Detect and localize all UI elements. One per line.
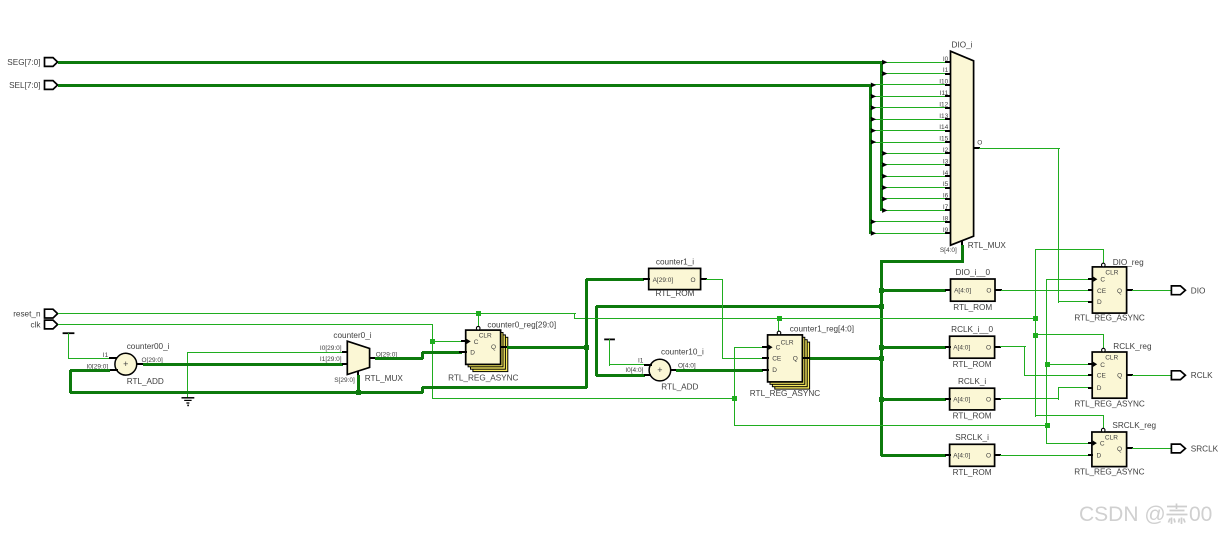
svg-text:counter00_i: counter00_i — [127, 342, 170, 351]
wire SEG[7:0] horizontal from port to bus — [58, 61, 882, 64]
junction clk at x=734.4 — [732, 396, 737, 401]
register RCLK_reg (RTL_REG_ASYNC) — [1092, 348, 1127, 398]
svg-text:Q: Q — [1117, 446, 1122, 453]
mux DIO_i (RTL_MUX) body — [951, 41, 1007, 251]
svg-text:RTL_REG_ASYNC: RTL_REG_ASYNC — [750, 389, 820, 398]
svg-text:RTL_ADD: RTL_ADD — [127, 377, 164, 386]
pin I2 of DIO_i — [943, 147, 951, 154]
svg-text:SRCLK: SRCLK — [1191, 445, 1219, 454]
svg-text:S[29:0]: S[29:0] — [334, 377, 355, 384]
pin I5 of DIO_i — [943, 181, 951, 189]
wire clk to RCLK_reg C — [1047, 364, 1089, 365]
junction on Q bus from counter1_reg Q driver — [879, 356, 884, 361]
junction reset to counter1_reg CLR — [777, 316, 782, 321]
adder counter10_i (RTL_ADD) — [649, 348, 704, 392]
svg-text:O: O — [986, 453, 991, 460]
svg-text:counter1_reg[4:0]: counter1_reg[4:0] — [790, 325, 854, 334]
wire RCLK_i__0 O to RCLK_reg CE — [1000, 346, 1089, 376]
junction counter0_reg Q net — [584, 345, 589, 350]
register SRCLK_reg (RTL_REG_ASYNC) — [1092, 428, 1127, 466]
svg-text:SRCLK_i: SRCLK_i — [955, 433, 989, 442]
input port SEG[7:0] — [7, 58, 57, 68]
wire clk to DIO_reg C — [1047, 279, 1089, 280]
mux counter0_i (RTL_MUX) body — [333, 331, 403, 383]
pin I3 of DIO_i — [943, 158, 951, 166]
wire clk from port — [58, 324, 433, 325]
wire counter0_reg Q to feedback riser — [507, 346, 587, 349]
junction clk to RCLK_reg C — [1045, 362, 1050, 367]
svg-text:I1[29:0]: I1[29:0] — [320, 356, 342, 363]
svg-text:counter0_reg[29:0]: counter0_reg[29:0] — [487, 321, 556, 330]
svg-text:I10: I10 — [939, 79, 948, 86]
wire Q to counter1_i A — [586, 278, 644, 281]
wire reset right riser x=1035.2 — [1035, 250, 1036, 417]
pin C stub of RCLK_reg — [1088, 363, 1093, 365]
wire Q bus left branch to counter10_i I0 — [595, 305, 882, 377]
svg-text:I2: I2 — [943, 147, 949, 154]
svg-text:A[4:0]: A[4:0] — [953, 345, 970, 352]
wire counter00_i O to counter0_i I1 — [143, 363, 343, 366]
wire counter1_reg Q to bus — [809, 357, 882, 360]
svg-text:I8: I8 — [943, 215, 949, 222]
svg-text:C: C — [1100, 277, 1105, 284]
pin Q stub of counter1_reg — [802, 357, 810, 359]
pin I1 of DIO_i — [943, 67, 951, 75]
pin I1 of counter00_i — [103, 352, 117, 359]
wire clk to counter0_reg C — [432, 341, 462, 342]
register counter1_reg[4:0] (RTL_REG_ASYNC) — [768, 331, 810, 389]
svg-text:CLR: CLR — [781, 340, 794, 347]
svg-text:I1: I1 — [943, 67, 949, 74]
pin C stub of SRCLK_reg — [1088, 442, 1093, 444]
wire tap to mux pin I6 with arrowhead — [881, 197, 946, 202]
junction reset to counter0_reg CLR — [476, 311, 481, 316]
junction on Q bus to RCLK_i__0 A — [879, 345, 884, 350]
pin D stub of counter0_reg — [459, 351, 467, 353]
output port RCLK — [1171, 371, 1213, 380]
wire counter1_i O to counter1_reg CE — [706, 279, 763, 359]
svg-text:DIO_i: DIO_i — [952, 41, 973, 50]
svg-text:I5: I5 — [943, 181, 949, 188]
adder counter00_i (RTL_ADD) — [115, 342, 170, 386]
svg-text:I1: I1 — [103, 352, 109, 359]
watermark CSDN @霖00 — [1079, 503, 1212, 526]
svg-text:RTL_ROM: RTL_ROM — [953, 360, 992, 369]
wire Q bus bottom corner to SRCLK_i A — [881, 454, 946, 457]
wire SRCLK_i O to SRCLK_reg D — [1000, 455, 1089, 456]
pin Q stub of SRCLK_reg — [1127, 447, 1133, 449]
pin O[29:0] of counter0_i — [370, 351, 397, 359]
wire tap to mux pin I13 with arrowhead — [870, 117, 946, 122]
svg-text:A[29:0]: A[29:0] — [653, 277, 674, 284]
svg-text:CSDN @: CSDN @ — [1079, 503, 1166, 526]
pin O stub of RCLK_i__0 — [995, 346, 1001, 348]
svg-text:O: O — [977, 140, 982, 147]
pin O of DIO_i — [974, 140, 982, 149]
pin D stub of SRCLK_reg — [1088, 454, 1093, 456]
output port DIO — [1171, 286, 1205, 295]
svg-text:RTL_MUX: RTL_MUX — [968, 241, 1007, 250]
pin CE stub of counter1_reg — [762, 357, 769, 359]
pin S[29:0] of counter0_i — [334, 371, 359, 384]
svg-text:Q: Q — [1117, 288, 1122, 295]
wire reset to RCLK_reg CLR — [1035, 334, 1104, 349]
wire counter1_reg Q[4:0] vertical bus x=881.3 — [880, 260, 883, 456]
svg-text:O: O — [986, 345, 991, 352]
pin I14 of DIO_i — [939, 124, 951, 132]
input port clk — [30, 320, 57, 330]
wire ground to counter0_i I0 — [188, 352, 343, 353]
pin D stub of counter1_reg — [762, 369, 769, 371]
svg-text:O: O — [986, 288, 991, 295]
wire tap to mux pin I8 with arrowhead — [870, 219, 946, 224]
wire S[4:0] select net: bus corner up to mux S pin — [881, 245, 964, 263]
pin A stub of RCLK_i — [945, 398, 951, 400]
svg-text:C: C — [1100, 441, 1105, 448]
wire Q bus to DIO_i__0 A — [881, 289, 946, 292]
svg-text:O[29:0]: O[29:0] — [142, 357, 164, 364]
ground symbol — [182, 352, 195, 406]
wire SEL[7:0] horizontal from port to bus — [58, 84, 871, 87]
pin I1[29:0] of counter0_i — [320, 356, 348, 365]
svg-text:I13: I13 — [939, 113, 948, 120]
wire SRCLK_reg Q to SRCLK port — [1132, 448, 1172, 449]
svg-text:O[4:0]: O[4:0] — [678, 363, 696, 370]
svg-text:O: O — [986, 396, 991, 403]
svg-text:I4: I4 — [943, 170, 949, 177]
svg-text:RCLK_reg: RCLK_reg — [1113, 342, 1152, 351]
wire tap to mux pin I15 with arrowhead — [870, 140, 946, 145]
svg-text:I14: I14 — [939, 124, 948, 131]
svg-text:I7: I7 — [943, 204, 949, 211]
pin I6 of DIO_i — [943, 193, 951, 200]
svg-text:I0[29:0]: I0[29:0] — [320, 345, 342, 352]
wire reset step down x=574.8 — [574, 313, 575, 319]
pin C stub of counter1_reg — [762, 346, 769, 348]
svg-text:I9: I9 — [943, 227, 949, 234]
svg-text:CLR: CLR — [479, 333, 492, 340]
pin I0[29:0] of counter00_i — [87, 363, 118, 371]
svg-text:CLR: CLR — [1105, 354, 1118, 361]
svg-text:C: C — [474, 339, 479, 346]
rom SRCLK_i (RTL_ROM) — [950, 433, 995, 477]
svg-text:DIO_i__0: DIO_i__0 — [955, 268, 990, 277]
junction on Q bus to DIO_i__0 A — [879, 288, 884, 293]
svg-text:SRCLK_reg: SRCLK_reg — [1112, 421, 1156, 430]
wire Q riser x=585.6 — [585, 279, 588, 388]
wire reset drop to counter0_reg CLR — [478, 313, 479, 327]
pin I10 of DIO_i — [939, 79, 951, 86]
svg-text:reset_n: reset_n — [13, 310, 41, 319]
svg-text:CE: CE — [1097, 288, 1107, 295]
pin D stub of DIO_reg — [1088, 301, 1093, 303]
svg-text:00: 00 — [1189, 503, 1212, 526]
svg-text:RCLK_i: RCLK_i — [958, 377, 986, 386]
wire tap to mux pin I14 with arrowhead — [870, 128, 946, 133]
svg-text:D: D — [1097, 453, 1102, 460]
wire clk riser x=1046.9 — [1046, 279, 1047, 444]
wire SEG[7:0] vertical bus x=881 — [880, 61, 883, 211]
pin I4 of DIO_i — [943, 170, 951, 177]
svg-text:RTL_ROM: RTL_ROM — [953, 412, 992, 421]
svg-text:RCLK: RCLK — [1191, 371, 1213, 380]
pin A stub of DIO_i__0 — [945, 289, 951, 291]
wire tap to mux pin I0 with arrowhead — [881, 60, 946, 65]
pin I7 of DIO_i — [943, 204, 951, 211]
svg-text:RTL_ROM: RTL_ROM — [953, 468, 992, 477]
junction clk y=425.2 — [1045, 423, 1050, 428]
pin I0[4:0] of counter10_i — [625, 367, 651, 376]
output port SRCLK — [1171, 444, 1218, 453]
svg-text:counter1_i: counter1_i — [656, 258, 694, 267]
wire reset to SRCLK_reg CLR — [1035, 415, 1104, 429]
wire counter0_i O to counter0_reg D — [375, 351, 462, 360]
pin CE stub of DIO_reg — [1088, 289, 1093, 291]
svg-text:DIO_reg: DIO_reg — [1113, 258, 1144, 267]
pin O[29:0] of counter00_i — [137, 357, 163, 365]
rom counter1_i (RTL_ROM) — [649, 258, 701, 299]
rom DIO_i__0 (RTL_ROM) — [951, 268, 996, 312]
svg-text:counter10_i: counter10_i — [661, 348, 704, 357]
pin A stub of RCLK_i__0 — [945, 346, 951, 348]
wire clk horizontal y=425.2 to right — [734, 425, 1048, 426]
pin I13 of DIO_i — [939, 113, 951, 120]
wire counter0_i S from feedback bus — [357, 375, 360, 393]
wire tap to mux pin I10 with arrowhead — [870, 83, 946, 88]
input port reset_n — [13, 309, 57, 319]
svg-text:A[4:0]: A[4:0] — [953, 453, 970, 460]
svg-text:D: D — [470, 350, 475, 357]
register DIO_reg (RTL_REG_ASYNC) — [1092, 263, 1126, 313]
pin I0 of DIO_i — [943, 56, 951, 63]
wire tap to mux pin I1 with arrowhead — [881, 71, 946, 76]
wire reset_n from port — [58, 313, 576, 314]
svg-text:S[4:0]: S[4:0] — [940, 247, 957, 254]
wire SEL[7:0] vertical bus x=870 — [869, 84, 872, 234]
svg-text:A[4:0]: A[4:0] — [953, 396, 970, 403]
svg-text:C: C — [1100, 362, 1105, 369]
pin I12 of DIO_i — [939, 101, 951, 109]
wire DIO_reg Q to DIO port — [1132, 290, 1172, 291]
register counter0_reg[29:0] (RTL_REG_ASYNC) — [466, 326, 508, 371]
pin Q stub of RCLK_reg — [1127, 374, 1133, 376]
pin O stub of RCLK_i — [995, 398, 1001, 400]
svg-text:RCLK_i__0: RCLK_i__0 — [951, 325, 993, 334]
vcc const1 symbol near counter10_i — [604, 339, 645, 366]
pin S[4:0] of DIO_i — [940, 241, 963, 254]
svg-text:D: D — [1097, 299, 1102, 306]
svg-text:D: D — [772, 367, 777, 374]
pin I9 of DIO_i — [943, 227, 951, 234]
svg-text:I0[4:0]: I0[4:0] — [625, 367, 643, 374]
pin C stub of DIO_reg — [1088, 278, 1093, 280]
junction on Q bus to counter10_i I0 branch — [879, 304, 884, 309]
wire tap to mux pin I3 with arrowhead — [881, 162, 946, 167]
svg-text:I15: I15 — [939, 136, 948, 143]
pin O[4:0] of counter10_i — [671, 363, 696, 371]
wire reset drop to counter1_reg CLR — [778, 318, 779, 332]
wire tap to mux pin I4 with arrowhead — [881, 174, 946, 179]
pin CE stub of RCLK_reg — [1088, 374, 1093, 376]
svg-text:O: O — [691, 277, 696, 284]
svg-text:Q: Q — [491, 344, 496, 351]
input port SEL[7:0] — [9, 81, 58, 91]
svg-text:RTL_ROM: RTL_ROM — [656, 289, 695, 298]
wire DIO_i O to DIO_reg D — [979, 148, 1089, 303]
pin I8 of DIO_i — [943, 215, 951, 223]
vcc const1 symbol near counter00_i — [63, 333, 110, 359]
wire DIO_i__0 O to DIO_reg CE — [1001, 290, 1089, 291]
svg-text:counter0_i: counter0_i — [333, 331, 371, 340]
svg-text:+: + — [123, 359, 128, 369]
svg-text:CLR: CLR — [1105, 269, 1118, 276]
pin O stub of DIO_i__0 — [995, 289, 1002, 291]
svg-text:Q: Q — [1117, 373, 1122, 380]
wire counter10_i O to counter1_reg D — [676, 369, 763, 372]
svg-text:+: + — [657, 365, 662, 375]
wire feedback to counter00_i I0 — [69, 369, 423, 394]
svg-text:RTL_REG_ASYNC: RTL_REG_ASYNC — [448, 373, 518, 382]
svg-text:I0: I0 — [943, 56, 949, 63]
svg-text:I1: I1 — [638, 358, 644, 365]
pin A stub of SRCLK_i — [945, 454, 951, 456]
pin C stub of counter0_reg — [461, 340, 467, 342]
svg-text:RTL_REG_ASYNC: RTL_REG_ASYNC — [1074, 467, 1144, 476]
svg-text:CE: CE — [772, 355, 782, 362]
wire Q bus to RCLK_i__0 A — [881, 346, 946, 349]
svg-text:SEL[7:0]: SEL[7:0] — [9, 81, 40, 90]
wire reset to DIO_reg CLR — [1035, 249, 1104, 264]
wire Q bus to RCLK_i A — [881, 398, 946, 401]
pin Q stub of counter0_reg — [501, 346, 508, 348]
wire tap to mux pin I2 with arrowhead — [881, 151, 946, 156]
pin O stub of counter1_i — [701, 278, 707, 280]
svg-text:RTL_MUX: RTL_MUX — [365, 374, 404, 383]
pin O stub of SRCLK_i — [995, 454, 1001, 456]
wire feedback step x=421.8 — [421, 386, 587, 393]
wire clk riser x=432.5 — [432, 324, 433, 399]
wire tap to mux pin I9 with arrowhead — [870, 231, 946, 236]
svg-text:I3: I3 — [943, 158, 949, 165]
rom RCLK_i (RTL_ROM) — [950, 377, 995, 421]
wire reset long horizontal y=318.2 — [575, 318, 1036, 319]
wire tap to mux pin I5 with arrowhead — [881, 185, 946, 190]
pin A stub of counter1_i — [643, 278, 650, 280]
svg-text:A[4:0]: A[4:0] — [954, 288, 971, 295]
svg-text:RTL_REG_ASYNC: RTL_REG_ASYNC — [1074, 313, 1144, 322]
wire clk up to counter1_reg C — [734, 347, 763, 426]
svg-text:I12: I12 — [939, 101, 948, 108]
wire RCLK_reg Q to RCLK port — [1132, 375, 1172, 376]
junction reset at right riser x=1035.2 — [1033, 316, 1038, 321]
svg-text:DIO: DIO — [1191, 286, 1206, 295]
svg-text:CE: CE — [1097, 373, 1107, 380]
svg-text:RTL_ADD: RTL_ADD — [661, 382, 698, 391]
wire clk horizontal y=398.2 — [432, 398, 735, 399]
junction feedback at mux S — [356, 390, 361, 395]
svg-text:SEG[7:0]: SEG[7:0] — [7, 58, 40, 67]
svg-text:CLR: CLR — [1105, 434, 1118, 441]
pin D stub of RCLK_reg — [1088, 387, 1093, 389]
junction reset to RCLK_reg CLR — [1033, 333, 1038, 338]
pin I11 of DIO_i — [940, 90, 951, 97]
rom RCLK_i__0 (RTL_ROM) — [950, 325, 995, 369]
junction clk to counter0_reg C — [430, 339, 435, 344]
svg-text:I6: I6 — [943, 193, 949, 200]
svg-text:C: C — [776, 345, 781, 352]
pin I15 of DIO_i — [939, 136, 951, 143]
wire RCLK_i O to RCLK_reg D — [1000, 387, 1089, 400]
svg-text:I11: I11 — [940, 90, 949, 97]
svg-text:RTL_ROM: RTL_ROM — [953, 303, 992, 312]
wire tap to mux pin I11 with arrowhead — [870, 94, 946, 99]
wire clk to SRCLK_reg C — [1047, 443, 1089, 444]
pin I1 of counter10_i — [638, 358, 652, 367]
wire tap to mux pin I7 with arrowhead — [881, 208, 946, 213]
svg-text:clk: clk — [30, 321, 41, 330]
svg-text:RTL_REG_ASYNC: RTL_REG_ASYNC — [1074, 399, 1144, 408]
pin I0[29:0] of counter0_i — [320, 345, 348, 353]
svg-text:Q: Q — [793, 355, 798, 362]
junction on Q bus to RCLK_i A — [879, 397, 884, 402]
wire tap to mux pin I12 with arrowhead — [870, 105, 946, 110]
pin Q stub of DIO_reg — [1127, 289, 1133, 291]
svg-text:D: D — [1097, 385, 1102, 392]
